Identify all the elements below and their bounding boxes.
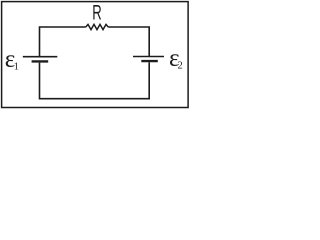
svg-text:R: R: [92, 0, 102, 24]
wire right-bottom segment: [94, 62, 149, 98]
battery cell E1: [23, 57, 58, 62]
wire left-bottom segment: [40, 63, 95, 99]
svg-text:2: 2: [177, 61, 182, 72]
wire top-right segment: [108, 27, 149, 56]
wire top-left segment: [40, 27, 86, 56]
resistor R: [86, 24, 108, 29]
svg-text:1: 1: [14, 62, 19, 73]
label E1: [5, 46, 19, 73]
battery cell E2: [133, 57, 164, 62]
label E2: [169, 45, 183, 72]
